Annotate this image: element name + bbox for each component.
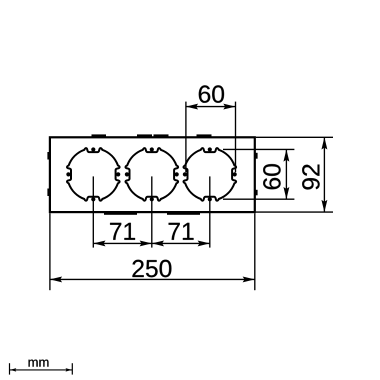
dim text 71 left [110, 223, 135, 240]
dim 71 arrowheads [93, 240, 105, 246]
dim 92 arrowheads [321, 137, 327, 149]
mm scale legend line [10, 369, 73, 371]
mm legend arrowheads [10, 368, 16, 372]
dim 60 right dimension line [285, 149, 287, 199]
dim text 60 right (rotated) [263, 164, 280, 189]
dim 92 extension lines [256, 136, 333, 138]
socket opening 2 claw dots [150, 147, 154, 151]
dim 60 top extension lines [185, 102, 187, 173]
left edge fixing tabs [47, 152, 50, 160]
dim 60 right extension lines [223, 148, 294, 150]
dim 60 right arrowheads [283, 149, 289, 161]
centre line circle 1 [92, 176, 94, 247]
dim 60 top arrowheads [186, 104, 198, 110]
centre line circle 3 [209, 176, 211, 247]
dim 250 dimension line [50, 278, 255, 280]
mm legend text [29, 360, 49, 367]
dim 250 arrowheads [50, 276, 62, 282]
dim 60 top dimension line [186, 106, 236, 108]
top edge fixing tabs [92, 134, 107, 138]
dim text 92 (rotated) [302, 165, 319, 190]
right edge fixing tabs [254, 153, 257, 159]
dim text 60 top [199, 85, 224, 102]
socket opening 3 claw dots [208, 147, 212, 151]
socket opening 2 outline [125, 147, 179, 201]
socket opening 1 outline [66, 147, 120, 201]
socket opening 3 outline [183, 147, 237, 201]
bottom edge fixing tabs [104, 211, 137, 215]
frame outline [50, 137, 255, 212]
dim text 250 [132, 260, 171, 277]
dim 250 extension lines [49, 213, 51, 290]
socket opening 1 claw dots [91, 147, 95, 151]
dim text 71 right [169, 223, 194, 240]
dim 92 dimension line [323, 137, 325, 212]
centre line circle 2 [151, 176, 153, 247]
dim 71 dimension line [93, 242, 210, 244]
